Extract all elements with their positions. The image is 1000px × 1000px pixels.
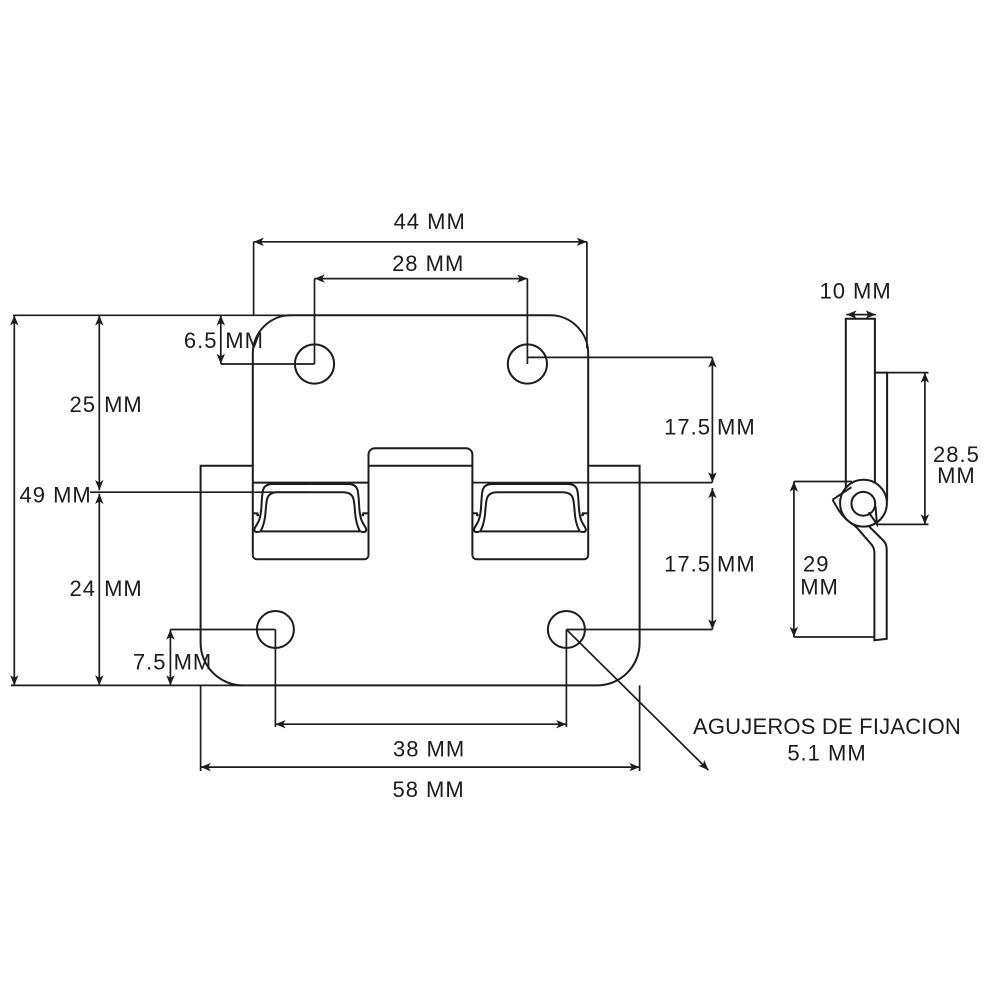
49 MM leader line [90, 491, 311, 493]
lower leaf bent strip [833, 500, 887, 641]
svg-text:AGUJEROS DE FIJACION: AGUJEROS DE FIJACION [693, 714, 961, 739]
curl inner line right half [310, 492, 360, 531]
screw hole bottom-right [548, 611, 585, 648]
svg-text:MM: MM [717, 552, 756, 577]
10 MM dimension [846, 314, 875, 316]
28 MM extension lines [314, 279, 316, 364]
38 MM dimension [275, 723, 566, 725]
upper leaf bottom edge in window 2, extended to dimension line [472, 482, 712, 484]
upper leaf bottom edge in window 1 [253, 482, 369, 484]
pivot outer circle [840, 480, 887, 527]
svg-text:MM: MM [104, 576, 143, 601]
center tab [369, 448, 473, 555]
svg-text:MM: MM [174, 650, 213, 675]
window 2 bottom (cutout in lower leaf, right) [472, 555, 588, 559]
svg-text:MM: MM [717, 415, 756, 440]
svg-text:MM: MM [800, 575, 839, 600]
folded layer [875, 373, 887, 501]
svg-text:10 MM: 10 MM [819, 279, 891, 304]
leaf end wedge [833, 487, 852, 500]
curl outer line right half [310, 484, 366, 532]
screw hole bottom-left [257, 611, 294, 648]
svg-text:58 MM: 58 MM [392, 777, 464, 802]
svg-text:44 MM: 44 MM [394, 209, 466, 234]
svg-text:17.5: 17.5 [664, 415, 711, 440]
49 MM dimension [13, 315, 15, 685]
svg-text:24: 24 [70, 576, 96, 601]
svg-text:29: 29 [803, 552, 829, 577]
top plate (upper leaf) outline [253, 315, 588, 555]
screw hole top-left [295, 344, 334, 383]
svg-text:MM: MM [225, 328, 264, 353]
curl slot notch left [253, 512, 258, 514]
bottom edge extension line [11, 684, 242, 686]
24 MM dimension [98, 494, 100, 686]
6.5 MM dimension [220, 315, 222, 364]
curl outer line left half [254, 484, 310, 532]
svg-text:28 MM: 28 MM [392, 251, 464, 276]
upper leaf strip [846, 319, 875, 488]
lower leaf top edge behind tab [369, 465, 473, 467]
svg-text:MM: MM [937, 463, 976, 488]
curl tip dot right [361, 514, 364, 517]
svg-text:25: 25 [70, 392, 96, 417]
58 MM dimension [201, 766, 640, 768]
curl tip dot left [256, 514, 259, 517]
svg-text:49 MM: 49 MM [20, 483, 92, 508]
knuckle curl window 1 [253, 484, 368, 532]
screw hole top-right [508, 344, 547, 383]
svg-text:6.5: 6.5 [184, 328, 218, 353]
28.5 MM dimension [924, 373, 926, 525]
top edge extension line [13, 314, 292, 316]
17.5 MM upper dimension [527, 356, 712, 358]
window 1 bottom (cutout in lower leaf, left) [253, 555, 369, 559]
29 MM dimension [793, 482, 795, 638]
svg-text:5.1 MM: 5.1 MM [787, 741, 866, 766]
28 MM dimension line [315, 278, 528, 280]
knuckle curl window 2 [472, 484, 587, 532]
7.5 MM dimension [169, 630, 171, 686]
curl inner line left half [260, 492, 310, 531]
curl bottom line [260, 530, 361, 532]
25 MM dimension [98, 315, 100, 490]
leader line to fixing holes [566, 630, 708, 771]
44 MM extension lines [253, 242, 255, 315]
curl slot notch right [362, 512, 367, 514]
17.5 MM lower dimension [711, 488, 713, 630]
curl slit notch [869, 506, 877, 524]
lower leaf (bottom plate) outline [201, 466, 640, 686]
svg-text:7.5: 7.5 [133, 650, 167, 675]
44 MM dimension line [254, 241, 587, 243]
svg-text:38 MM: 38 MM [393, 736, 465, 761]
svg-text:MM: MM [104, 392, 143, 417]
pivot inner circle [851, 492, 875, 516]
svg-text:17.5: 17.5 [664, 552, 711, 577]
